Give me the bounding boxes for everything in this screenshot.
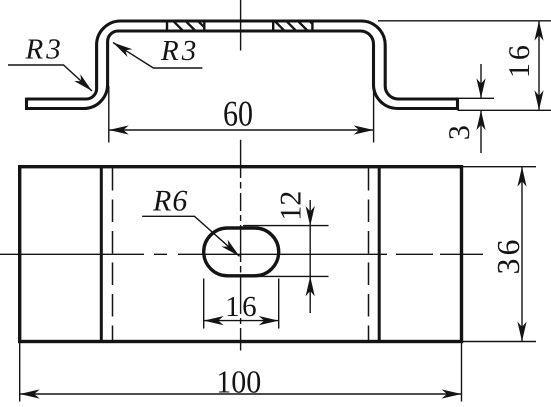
plan view right bend tangent dashed line [368,168,370,340]
side view: sheet outer (upper) surface [27,21,458,99]
dimension 16 (slot) line [204,320,279,322]
dimension 12 line [309,200,311,313]
dimension 16 (height) extension lines [378,21,551,111]
dimension 3 line upper [480,64,482,98]
side view: left flange end edge [25,98,28,110]
dimension 100 arrow left [20,389,40,398]
section break tick 1 [166,22,168,30]
dimension 16 (height) arrow top [534,21,543,41]
section break tick 2 [203,22,205,30]
dimension 12 extension lines [243,226,329,277]
svg-text:12: 12 [275,191,308,221]
svg-text:R3: R3 [160,35,199,67]
plan vertical centerline [240,140,242,351]
dimension 12 arrow top [306,206,315,226]
plan horizontal centerline [0,253,483,255]
section break tick 3 [272,22,274,30]
dimension 12 arrow bottom [306,276,315,296]
dimension 3 arrow upper [476,78,485,98]
R3 label 1 arrowhead [74,74,95,94]
side view: right flange end edge [456,98,459,110]
slot (obround hole) [204,228,279,276]
R6 label arrowhead [221,240,242,260]
dimension 100 extension lines [20,343,462,402]
svg-text:R3: R3 [25,34,64,66]
svg-text:60: 60 [223,94,253,134]
dimension 16 (height) arrow bottom [534,90,543,110]
dimension 36 arrow bottom [517,322,526,342]
dimension 16 (slot) extension lines [204,279,279,329]
plan view left bend tangent dashed line [112,168,114,340]
svg-text:3: 3 [443,125,476,140]
dimension 36 arrow top [517,167,526,187]
dimension 16 (height) line [538,21,540,111]
dimension 100 line [20,393,462,395]
dimension 60 extension lines [109,85,374,143]
dimension 100 arrow right [442,389,462,398]
R3 label 1 leader [8,65,92,91]
hatch segment 2 [276,22,319,30]
dimension 16 (slot) arrow left [204,316,224,325]
R6 label leader [142,216,239,256]
top view vertical centerline [240,0,242,51]
dimension 3 arrow lower [476,110,485,130]
svg-text:36: 36 [490,240,526,275]
dimension 60 arrow left [109,125,129,134]
R3 label 2 leader [113,43,202,69]
dimension 60 line [109,129,374,131]
dimension 36 line [521,167,523,342]
section break tick 4 [311,22,313,30]
hatch segment 1 [174,22,207,30]
side view: sheet inner (lower) surface [27,31,458,109]
dimension 16 (slot) arrow right [259,316,279,325]
dimension 36 extension lines [463,167,536,342]
plan view left bend line [100,167,103,342]
svg-text:R6: R6 [152,185,188,218]
svg-text:100: 100 [216,363,261,399]
R3 label 2 arrowhead [111,39,133,57]
dimension 3 line lower [480,110,482,153]
dimension 60 arrow right [354,125,374,134]
plan view outline rectangle [20,167,462,342]
plan view right bend line [378,167,381,342]
svg-text:16: 16 [503,45,536,78]
dimension 3 extension line [458,97,495,99]
